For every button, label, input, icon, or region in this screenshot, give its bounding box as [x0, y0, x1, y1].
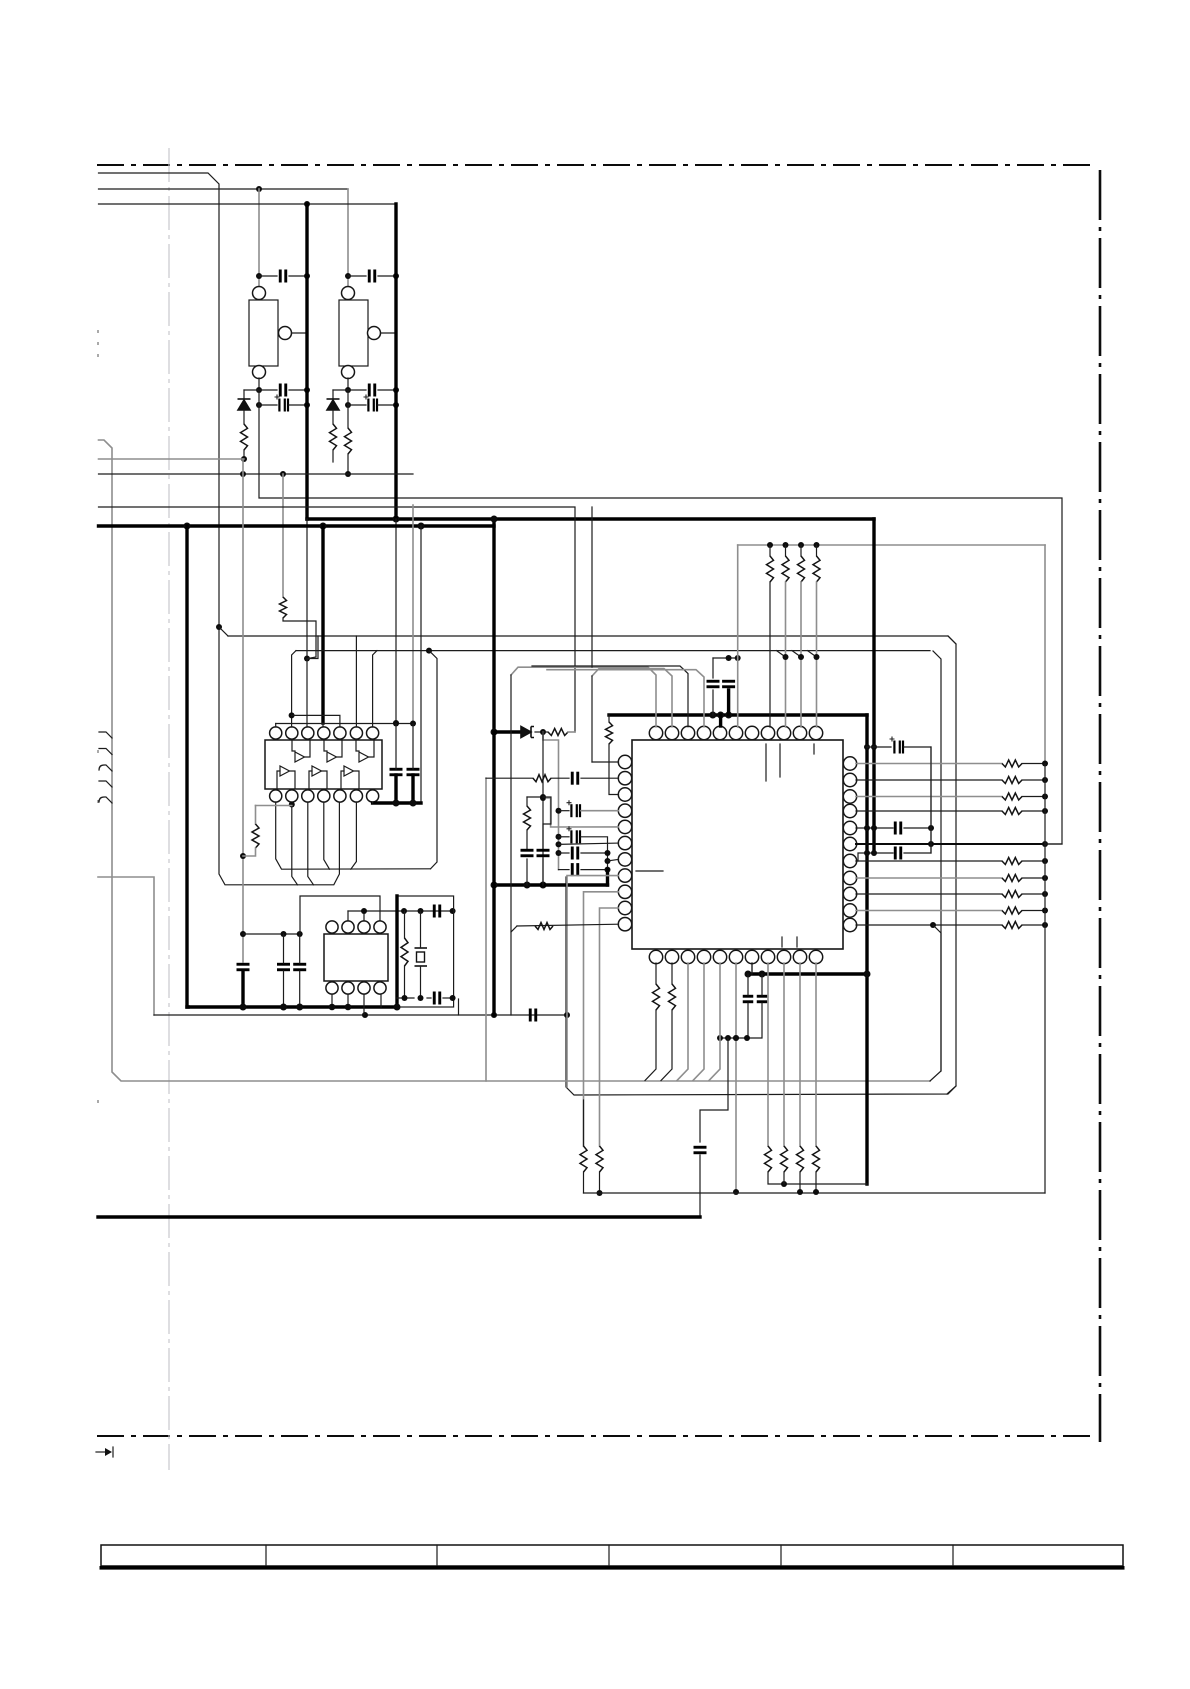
IC1 inverter B3 input step	[341, 771, 344, 788]
wire W998 c	[443, 997, 453, 999]
capacitor C6 electrolytic	[364, 395, 378, 412]
junction W723-C10	[410, 721, 416, 727]
IC1 top pin 6	[350, 727, 362, 739]
junction W747-v867	[864, 744, 870, 750]
junction v558-836	[556, 834, 562, 840]
junction box-W1007	[394, 1004, 401, 1011]
IC2 top pin 6	[729, 726, 742, 739]
junction W474-v243	[240, 471, 246, 477]
wire C2 right lead	[289, 389, 307, 391]
IC1 inverter B1 output step	[290, 771, 295, 788]
wire v323 stub to pin	[322, 723, 324, 727]
wire W998	[397, 997, 414, 999]
wire 543-797 jog	[543, 797, 551, 849]
wire W440 entry	[99, 440, 931, 1081]
resistor R8	[580, 1146, 587, 1172]
wire D2 to R2	[332, 410, 334, 424]
IC2 left pin 6	[618, 836, 631, 849]
IC2 right pin 1	[843, 757, 856, 770]
wire W651 tap diag 801	[792, 651, 801, 657]
resistor R1	[241, 424, 248, 450]
wire thick rail v396	[394, 204, 397, 519]
wire net1 entry	[99, 173, 340, 885]
wire W1184	[768, 1172, 866, 1184]
wire v543 down	[542, 732, 544, 885]
wire C16 left lead	[559, 869, 570, 871]
wire p11L diag	[511, 926, 517, 932]
wire pin2b chamfer	[292, 802, 298, 885]
junction R1-W459	[241, 456, 247, 462]
junction C7-W1007	[240, 1004, 247, 1011]
junction C6 left	[345, 402, 351, 408]
wire row925	[856, 924, 1002, 926]
junction W998 xtal	[418, 995, 424, 1001]
wire C15 left lead	[559, 852, 570, 854]
junction C3-v307	[304, 402, 310, 408]
wire C1 left lead	[259, 275, 277, 277]
junction v607-853	[605, 850, 611, 856]
resistor Rd800	[797, 1146, 804, 1172]
junction W974 a	[745, 971, 752, 978]
wire vbank 770 upper	[769, 545, 771, 556]
wire X1 node down to W499	[259, 390, 1062, 844]
resonator X1 body	[249, 300, 278, 366]
junction W974 b	[759, 971, 766, 978]
wire X2 lower lead	[347, 390, 349, 428]
resonator X2 top terminal	[342, 287, 355, 300]
junction v543-798	[540, 795, 546, 801]
wire box corner stub	[458, 999, 460, 1015]
IC2 bottom pin 5	[713, 950, 726, 963]
resistor R7	[524, 806, 531, 830]
capacitor C23	[757, 996, 768, 1002]
wire W1184 corner	[866, 1183, 867, 1185]
wire p8L net	[567, 876, 619, 1087]
resonator X2 side terminal	[368, 327, 381, 340]
IC3 top pin 4	[374, 921, 386, 933]
resistor Rr5	[1002, 875, 1022, 882]
off-page arrow bottom left	[96, 1447, 113, 1457]
table bottom thick rule	[100, 1566, 1125, 1570]
junction W526-v421	[418, 523, 425, 530]
diode D1	[238, 399, 251, 410]
wire p4b net	[693, 963, 704, 1081]
capacitor C16	[572, 863, 578, 876]
resistor Rd816	[813, 1146, 820, 1172]
wire C15 right lead	[581, 852, 608, 854]
wire p2L row	[486, 777, 533, 779]
junction W651 tap 816.5	[814, 654, 820, 660]
wire C13 left lead	[559, 810, 570, 812]
wire R6 lead	[543, 731, 548, 733]
IC2 bottom pin 9	[777, 950, 790, 963]
wire IC2 right pin row 6 end	[1022, 893, 1045, 895]
junction v494-W732	[491, 729, 498, 736]
IC2 right pin 2	[843, 773, 856, 786]
wire v1044	[1044, 545, 1046, 764]
wire p1b res	[655, 963, 657, 984]
capacitor C3 electrolytic	[275, 395, 289, 412]
wire thick rail W519	[307, 517, 874, 520]
wire v956 upper	[948, 636, 956, 644]
wire v511	[510, 675, 512, 1015]
IC1 inverter B2 output step	[322, 771, 327, 788]
junction W651-v437	[426, 648, 432, 654]
junction IC3 stub 332	[329, 1004, 336, 1011]
IC1 inverter A1 output step	[305, 741, 310, 757]
wire R7 bot lead	[526, 830, 528, 849]
junction W651 tap 801	[798, 654, 804, 660]
wire vbank 816.5 lower	[816, 582, 818, 727]
wire R7 top	[527, 796, 543, 798]
junction p6b-W1193	[733, 1189, 739, 1195]
wire W716 branch	[292, 715, 340, 727]
IC1 bottom pin 13	[350, 790, 362, 802]
capacitor C24	[694, 1147, 707, 1153]
wire IC2 right pin row 4	[856, 810, 1002, 812]
IC2 bottom pin 1	[649, 950, 662, 963]
wire thick W803	[373, 801, 421, 804]
wire W390b-corner	[333, 389, 348, 391]
junction W658-C12	[726, 655, 732, 661]
wire C6 right lead	[378, 404, 396, 406]
wire C10 bottom lead	[411, 775, 414, 803]
junction C2-v307	[304, 387, 310, 393]
IC2 right pin 5	[843, 821, 856, 834]
IC2 QFP body	[632, 740, 843, 949]
wire v243 long	[242, 459, 244, 962]
wire v413	[412, 505, 414, 723]
capacitor C2	[280, 384, 286, 397]
resistor R13	[401, 938, 408, 966]
IC2 right pin 7	[843, 854, 856, 867]
junction D3 node	[540, 729, 546, 735]
resonator X1 top terminal	[253, 287, 266, 300]
resistor R11	[653, 984, 660, 1010]
wire IC2 right pin row 6	[856, 893, 1002, 895]
wire net3 entry	[99, 203, 397, 205]
IC1 inverter B1 input step	[277, 771, 280, 788]
wire resonator2 top lead	[347, 189, 349, 287]
junction C1-v307	[304, 273, 310, 279]
wire IC2 right pin row 5 end	[1022, 877, 1045, 879]
capacitor C4	[369, 270, 375, 283]
IC2 left pin 4	[618, 804, 631, 817]
junction W1193-816	[813, 1189, 819, 1195]
wire C22 top	[747, 974, 749, 995]
IC2 left pin 1	[618, 755, 631, 768]
wire W998 b	[427, 997, 431, 999]
junction W1038 b	[725, 1035, 731, 1041]
IC2 left pin 5	[618, 820, 631, 833]
wire diode D2 branch	[332, 390, 334, 398]
capacitor C14 electrolytic	[567, 826, 581, 843]
capacitor C29	[572, 772, 578, 785]
connector pin hook 2	[99, 749, 112, 755]
wire thick W974	[748, 972, 867, 975]
wire R1 bottom lead	[243, 450, 245, 459]
junction row844-931	[928, 841, 934, 847]
capacitor C1	[280, 270, 286, 283]
wire C3 left lead	[259, 404, 277, 406]
wire W651 tap diag 785.5	[777, 651, 786, 657]
wire X2 side stub	[381, 332, 397, 334]
wire thick rail v307	[305, 204, 308, 519]
IC2 top pin 2	[665, 726, 678, 739]
wire p10L net	[600, 908, 619, 1146]
junction 543-797	[540, 794, 546, 800]
junction W1015 v567	[564, 1012, 570, 1018]
wire W526 thick	[99, 524, 495, 527]
right dash-dot border	[1099, 170, 1102, 1442]
revision table outer	[101, 1545, 1123, 1566]
capacitor C10	[407, 769, 420, 775]
wire W1015	[154, 1014, 567, 1016]
wire W803 corner pin7b	[372, 802, 374, 803]
wire C17 bot	[526, 859, 528, 885]
wire C24 bot	[699, 1155, 701, 1217]
wire C20 right	[904, 827, 931, 829]
junction IC2 right pin row 4	[1042, 808, 1048, 814]
wire Y1 top	[420, 911, 422, 948]
wire C14 to v607	[581, 837, 608, 870]
wire X1 side stub	[292, 332, 308, 334]
junction W1193-800	[797, 1189, 803, 1195]
IC2 bottom pin 8	[761, 950, 774, 963]
junction v543-W885	[540, 882, 547, 889]
wire W1193	[584, 1192, 1046, 1194]
capacitor C7	[237, 964, 250, 970]
table divider 4	[780, 1545, 782, 1566]
IC3 top pin 3	[358, 921, 370, 933]
wire W651 left chamfer	[292, 651, 296, 727]
wire R2 bottom lead	[332, 450, 334, 462]
IC1 inverter B2 input step	[309, 771, 312, 788]
wire IC3 pin stub 348	[347, 994, 349, 1007]
IC2 bottom pin 10	[793, 950, 806, 963]
wire W651 tap diag 816.5	[808, 651, 817, 657]
wire v421	[420, 526, 422, 803]
wire pin1b loop W869	[276, 802, 431, 869]
wire row861 ext	[856, 860, 1002, 862]
junction v558-812	[556, 808, 562, 814]
wire W1038	[720, 1037, 761, 1039]
wire row861 end	[1022, 860, 1045, 862]
wire 800 to W1193	[799, 1172, 801, 1192]
IC2 bottom pin 7	[745, 950, 758, 963]
junction v396-W723	[393, 720, 399, 726]
wire W474	[99, 473, 414, 475]
capacitor C25	[277, 964, 290, 970]
wire v607 thick stub	[606, 870, 609, 885]
junction C6-v396	[393, 402, 399, 408]
junction W885-v494	[491, 882, 498, 889]
resistor R10	[535, 923, 553, 930]
IC2 left pin 3	[618, 788, 631, 801]
capacitor C5	[369, 384, 375, 397]
capacitor C22	[743, 996, 754, 1002]
IC2 right pin 10	[843, 904, 856, 917]
wire thick box left	[395, 896, 398, 1007]
wire qtop bundle a	[511, 667, 656, 727]
junction W545 x770	[767, 542, 773, 548]
wire IC3 pin stub 332	[331, 994, 333, 1007]
capacitor C19 electrolytic	[890, 737, 904, 754]
capacitor C28	[434, 992, 440, 1005]
junction v243-W934	[240, 931, 246, 937]
junction C4-v396	[393, 273, 399, 279]
wire C5 right lead	[378, 389, 396, 391]
capacitor C12	[722, 681, 735, 687]
wire C7 bottom thick	[241, 972, 244, 1007]
junction W1015 v494	[491, 1012, 497, 1018]
IC2 bottom pin 11	[809, 950, 822, 963]
junction row853-v874	[871, 850, 877, 856]
capacitor C27	[434, 905, 440, 918]
junction net2-res1	[256, 186, 262, 192]
IC2 left pin 8	[618, 869, 631, 882]
wire IC2 right pin row 4 end	[1022, 810, 1045, 812]
wire W911	[348, 910, 453, 912]
wire C16 right lead	[581, 869, 608, 871]
wire C12 bottom lead	[727, 690, 730, 715]
wire W747	[867, 746, 891, 748]
wire W507 entry	[99, 507, 576, 732]
junction IC2 right pin row 2	[1042, 777, 1048, 783]
junction W658-v737	[735, 655, 741, 661]
wire C3 right lead	[289, 404, 307, 406]
IC2 left pin 10	[618, 901, 631, 914]
wire W911 corner	[347, 911, 349, 921]
wire vbank 770 lower	[769, 582, 771, 727]
crystal box outline	[397, 896, 454, 1007]
wire p2b res	[671, 963, 673, 984]
wire thick W1007	[187, 1005, 397, 1008]
capacitor C20	[895, 822, 901, 835]
junction 931-828	[928, 825, 934, 831]
IC1 bottom pin 9	[286, 790, 298, 802]
connector pin hook 5	[99, 797, 112, 803]
wire p800b upper	[799, 963, 801, 1146]
IC1 top pin 4	[318, 727, 330, 739]
IC1 inverter B3 output step	[354, 771, 359, 788]
wire pin6b chamfer	[351, 802, 357, 869]
wire D3 jog down	[543, 732, 559, 870]
IC1 bottom pin 10	[302, 790, 314, 802]
wire C14 left lead	[559, 836, 570, 838]
wire IC2 right pin row 3 end	[1022, 796, 1045, 798]
IC2 left pin 11	[618, 918, 631, 931]
wire v486	[485, 778, 487, 1081]
IC1 inverter A3 input step	[356, 741, 359, 751]
IC1 top pin 1	[270, 727, 282, 739]
junction W651 tap 785.5	[783, 654, 789, 660]
junction C5-v396	[393, 387, 399, 393]
wire p7b net	[751, 963, 753, 974]
IC3 bottom pin 1	[326, 982, 338, 994]
wire vbank 785.5 lower	[785, 582, 787, 727]
wire R8 bot	[583, 1172, 585, 1193]
wire v592 upper	[591, 507, 593, 667]
junction p6b-W1038	[733, 1035, 739, 1041]
junction C3 left	[256, 402, 262, 408]
wire W1095r	[947, 1086, 956, 1094]
IC2 internal mark 2	[779, 744, 781, 777]
resistor R4	[252, 824, 259, 848]
wire pin5t stub	[719, 715, 722, 726]
capacitor C15	[572, 847, 578, 860]
resonator X1 bottom terminal	[253, 366, 266, 379]
junction net1-bus	[216, 624, 222, 630]
wire IC3 pin3b stub	[363, 994, 365, 1015]
wire p6b net	[735, 963, 737, 1192]
capacitor C26	[293, 964, 306, 970]
wire C2 left lead	[259, 389, 277, 391]
wire W651 chamfer p7	[373, 651, 377, 727]
wire thick v494 low	[492, 732, 495, 1015]
wire v396 lower	[395, 519, 397, 723]
wire C23 bot	[761, 1003, 763, 1038]
junction W934-C26	[297, 931, 303, 937]
wire W877 to v154	[98, 877, 154, 1015]
resistor R5	[606, 722, 613, 744]
resistor Rd768	[765, 1146, 772, 1172]
table divider 3	[608, 1545, 610, 1566]
junction IC2 right pin row 6	[1042, 891, 1048, 897]
wire v728 path	[700, 1038, 728, 1142]
junction v292-W716	[289, 712, 295, 718]
wire W844 to pin6L	[559, 843, 619, 844]
table divider 5	[952, 1545, 954, 1566]
wire v307 to pin3	[306, 659, 308, 728]
wire R13 top	[404, 911, 406, 938]
vertical fold line	[168, 148, 170, 1470]
wire v357 from W636	[355, 636, 357, 727]
junction W545 x785.5	[783, 542, 789, 548]
wire C11 bottom lead	[712, 690, 714, 715]
wire W1081 right chamfer	[930, 651, 941, 1081]
wire R13 bot	[404, 966, 406, 998]
wire v437 from W651	[429, 651, 437, 869]
junction W1015 pin3b	[362, 1012, 368, 1018]
wire C29 to pin2L	[581, 777, 619, 779]
junction R9-W1193	[597, 1190, 603, 1196]
wire R4 bottom lead	[243, 848, 256, 856]
junction pin2b-R4	[289, 802, 295, 808]
junction W715 a	[709, 712, 716, 719]
junction W474-v283	[280, 471, 286, 477]
junction W526-v187	[184, 523, 191, 530]
resonator X1 side terminal	[279, 327, 292, 340]
IC1 inverter B3	[344, 766, 354, 776]
top dash-dot border	[97, 164, 1092, 166]
IC2 bottom pin 6	[729, 950, 742, 963]
IC2 internal mark 6	[636, 870, 663, 872]
IC3 bottom pin 3	[358, 982, 370, 994]
IC1 top pin 7	[367, 727, 379, 739]
wire v1062-W499 link	[1045, 843, 1062, 845]
IC1 top pin 2	[286, 727, 298, 739]
IC2 internal mark 4	[781, 937, 783, 947]
wire C6 left lead	[348, 404, 366, 406]
junction W998 a	[402, 995, 408, 1001]
wire W658 caps	[713, 657, 738, 659]
junction v307-W658	[304, 656, 310, 662]
junction R3-W474	[345, 471, 351, 477]
wire v941 diag	[933, 925, 941, 1071]
capacitor C17	[521, 850, 534, 856]
wire C18 bot	[542, 859, 544, 885]
